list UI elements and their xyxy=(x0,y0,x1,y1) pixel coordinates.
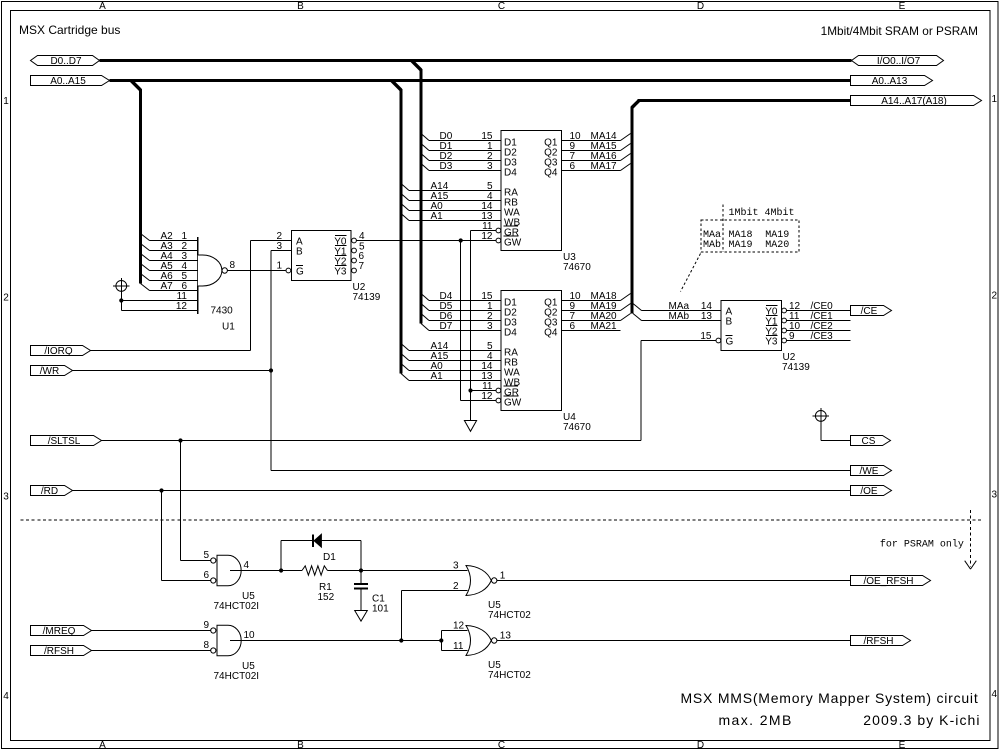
bus label I/O0..I/O7 xyxy=(852,56,944,68)
svg-text:5: 5 xyxy=(204,550,210,561)
wire: U3 Q2 to MA15 xyxy=(562,141,631,152)
svg-text:/WE: /WE xyxy=(860,466,879,477)
svg-text:MA21: MA21 xyxy=(591,321,618,332)
U4 pins 11,12 labels xyxy=(481,381,493,402)
svg-text:A0..A13: A0..A13 xyxy=(872,76,908,87)
svg-text:10: 10 xyxy=(244,630,256,641)
junction RC input xyxy=(279,568,283,572)
svg-text:/IORQ: /IORQ xyxy=(44,346,73,357)
wire: D7 to U4 D4 xyxy=(421,321,501,332)
svg-text:I/O0..I/O7: I/O0..I/O7 xyxy=(877,56,921,67)
svg-text:1: 1 xyxy=(992,94,998,105)
wire: U3 Q3 to MA16 xyxy=(562,151,631,162)
svg-text:74139: 74139 xyxy=(782,362,810,373)
U1 7430 8-input NAND gate xyxy=(198,237,228,314)
U2 left pin numbers xyxy=(276,231,365,272)
wire: A5 to U1 pin 4 xyxy=(141,261,198,272)
U2 74139 decoder (left) xyxy=(286,231,356,281)
wire: /MREQ to U5 pin 9 xyxy=(92,630,211,632)
svg-text:3: 3 xyxy=(487,321,493,332)
svg-text:74HCT02: 74HCT02 xyxy=(488,670,531,681)
wire: A0 to U4 xyxy=(401,361,501,372)
svg-text:13: 13 xyxy=(500,631,512,642)
bus label A0..A15 xyxy=(31,76,110,88)
svg-text:1: 1 xyxy=(276,261,282,272)
ground symbol (C1) xyxy=(355,611,368,622)
svg-text:A14..A17(A18): A14..A17(A18) xyxy=(881,96,947,107)
wire: U1 output to U2 G xyxy=(227,270,285,272)
wire: D6 to U4 D3 xyxy=(421,311,501,322)
U5d labels xyxy=(488,660,531,681)
svg-text:74HCT02I: 74HCT02I xyxy=(214,671,260,682)
svg-text:2: 2 xyxy=(3,293,9,304)
bus tap vertical x=140 (A2..A7 to U1) xyxy=(131,81,141,284)
svg-text:74670: 74670 xyxy=(563,422,591,433)
title: 1Mbit/4Mbit SRAM or PSRAM xyxy=(821,24,978,38)
dashed separator (PSRAM section) xyxy=(21,519,982,521)
svg-text:MSX Cartridge bus: MSX Cartridge bus xyxy=(19,23,120,37)
wire: /OE_RFSH output xyxy=(497,580,850,582)
wire: U5 pin 2 from refresh net xyxy=(401,591,467,641)
svg-text:A1: A1 xyxy=(431,211,444,222)
wire: /RD to /OE xyxy=(73,490,851,492)
wire: D3 to U3 D4 xyxy=(421,161,501,172)
wire: A15 to U3 xyxy=(401,191,501,202)
wire: A4 to U1 pin 3 xyxy=(141,251,198,262)
svg-text:MAb: MAb xyxy=(703,239,721,251)
junction /RD net xyxy=(159,488,163,492)
wire: A1 to U4 xyxy=(401,371,501,382)
svg-text:GW: GW xyxy=(504,238,522,249)
svg-text:9: 9 xyxy=(204,620,210,631)
wire: /CE2 xyxy=(787,321,851,332)
wire: U1 pin 12 xyxy=(121,301,198,312)
wire: Y0 (write strobe) to U3/U4 GW xyxy=(356,241,496,401)
wire: /RFSH to U5 pin 8 xyxy=(92,650,211,652)
wire: A15 to U4 xyxy=(401,351,501,362)
U1 pin 8 output label xyxy=(230,260,236,271)
U2 left labels xyxy=(353,282,381,303)
wire: /SLTSL branch to U5 pin 5 xyxy=(181,441,211,561)
resistor R1 xyxy=(302,566,335,603)
svg-text:MAb: MAb xyxy=(669,311,690,322)
wire: U4 Q3 to MA20 xyxy=(562,311,631,322)
svg-text:3: 3 xyxy=(487,161,493,172)
svg-text:GW: GW xyxy=(504,398,522,409)
svg-text:1Mbit 4Mbit: 1Mbit 4Mbit xyxy=(729,207,795,219)
wire: U3/U4 GR to ground xyxy=(471,231,496,421)
svg-text:MA17: MA17 xyxy=(591,161,618,172)
svg-text:74HCT02: 74HCT02 xyxy=(488,610,531,621)
wire: A6 to U1 pin 5 xyxy=(141,271,198,282)
U2 right pin numbers xyxy=(700,301,800,342)
svg-text:74670: 74670 xyxy=(563,262,591,273)
svg-text:/OE_RFSH: /OE_RFSH xyxy=(863,576,913,587)
junction GR net xyxy=(468,388,472,392)
svg-text:D7: D7 xyxy=(440,321,453,332)
svg-text:3: 3 xyxy=(3,492,9,503)
wire: D5 to U4 D2 xyxy=(421,301,501,312)
wire: U5 pin4 output to RC xyxy=(230,570,302,572)
svg-text:E: E xyxy=(899,1,906,12)
svg-text:D4: D4 xyxy=(504,328,517,339)
port /MREQ xyxy=(31,626,92,638)
U1 label xyxy=(222,322,235,333)
svg-text:B: B xyxy=(297,1,304,12)
1Mbit/4Mbit mapping table xyxy=(681,205,800,292)
wire: /SLTSL to U2 right G xyxy=(102,341,717,441)
svg-text:Y3: Y3 xyxy=(765,337,778,348)
svg-text:/OE: /OE xyxy=(860,486,878,497)
svg-text:1: 1 xyxy=(500,571,506,582)
junction /WR net xyxy=(269,368,273,372)
svg-text:4: 4 xyxy=(992,689,998,700)
bus vertical x=631 (MA14..MA20) xyxy=(632,100,639,313)
wire: D2 to U3 D3 xyxy=(421,151,501,162)
svg-text:U1: U1 xyxy=(222,322,235,333)
svg-text:A1: A1 xyxy=(431,371,444,382)
offpage connector symbol (U1 pins 11,12) xyxy=(113,278,130,311)
offpage connector symbol (CS) xyxy=(813,408,830,441)
text: for PSRAM only xyxy=(880,539,964,551)
svg-text:A7: A7 xyxy=(161,281,174,292)
svg-text:1: 1 xyxy=(3,96,9,107)
wire: MAb from bus to U2 pin B xyxy=(633,311,721,322)
U5 NOR gate (pins 12,11,13) xyxy=(453,621,511,656)
U5 NOR gate (pins 5,6,4) xyxy=(204,550,250,586)
bus tap vertical x=400 (A-bus to U3/U4) xyxy=(392,81,402,374)
junction gate4 input tie xyxy=(439,638,443,642)
U5c labels xyxy=(488,600,531,621)
svg-text:Q4: Q4 xyxy=(544,328,558,339)
svg-text:G: G xyxy=(296,267,304,278)
U2 right labels xyxy=(782,352,810,373)
title: max 2MB xyxy=(719,712,793,728)
svg-text:6: 6 xyxy=(570,321,576,332)
port /SLTSL xyxy=(31,436,102,448)
wire: U4 Q1 to MA18 xyxy=(562,291,631,302)
wire: /RD branch to U5 pin 6 xyxy=(162,491,211,581)
wire: /WE line xyxy=(271,470,851,472)
wire: /CE3 xyxy=(787,331,851,342)
U5 NOR gate (pins 3,2,1) xyxy=(453,561,506,596)
wire: D0 to U3 D1 xyxy=(421,131,501,142)
U4 labels xyxy=(563,412,591,433)
wire: /IORQ to U2 pin A xyxy=(91,241,292,351)
port /IORQ xyxy=(31,346,91,358)
svg-text:3: 3 xyxy=(992,490,998,501)
svg-text:2009.3 by K-ichi: 2009.3 by K-ichi xyxy=(863,712,980,728)
bus label A0..A13 xyxy=(851,76,933,88)
svg-text:6: 6 xyxy=(204,570,210,581)
svg-text:74139: 74139 xyxy=(353,292,381,303)
svg-text:for PSRAM only: for PSRAM only xyxy=(880,539,964,551)
svg-text:MA19: MA19 xyxy=(729,240,753,251)
svg-text:/CE: /CE xyxy=(861,306,878,317)
svg-text:D0..D7: D0..D7 xyxy=(50,56,82,67)
svg-text:G: G xyxy=(726,337,734,348)
port /WE xyxy=(851,466,892,478)
title: circuit name xyxy=(680,690,978,706)
svg-text:4: 4 xyxy=(3,691,9,702)
svg-text:1Mbit/4Mbit SRAM or PSRAM: 1Mbit/4Mbit SRAM or PSRAM xyxy=(821,24,978,38)
svg-text:D3: D3 xyxy=(440,161,453,172)
port /OE xyxy=(851,486,892,498)
wire: U4 Q2 to MA19 xyxy=(562,301,631,312)
svg-text:101: 101 xyxy=(372,604,389,615)
wire: U5 pin 10 output xyxy=(230,640,441,642)
port /WR xyxy=(31,366,73,378)
wire: gate4 input bracket xyxy=(441,631,467,651)
svg-text:E: E xyxy=(899,740,906,750)
wire: A14 to U4 xyxy=(401,341,501,352)
wire: U4 Q4 to MA21 xyxy=(562,321,621,332)
svg-text:74HCT02I: 74HCT02I xyxy=(214,601,260,612)
ground symbol (GR net) xyxy=(464,421,476,432)
wire: /CE0 xyxy=(787,301,851,312)
U1 label 7430 xyxy=(211,306,234,317)
svg-text:12: 12 xyxy=(453,621,465,632)
port CS xyxy=(851,436,891,448)
svg-text:7430: 7430 xyxy=(211,306,234,317)
junction pins 11/12 tie xyxy=(119,298,123,302)
U5a labels xyxy=(214,591,260,612)
svg-text:D4: D4 xyxy=(504,168,517,179)
svg-text:8: 8 xyxy=(204,640,210,651)
wire: D1 to U3 D2 xyxy=(421,141,501,152)
svg-text:D: D xyxy=(697,740,704,750)
svg-text:B: B xyxy=(296,247,303,258)
svg-text:7: 7 xyxy=(359,261,365,272)
svg-text:152: 152 xyxy=(318,592,335,603)
svg-text:/RFSH: /RFSH xyxy=(44,646,74,657)
svg-text:max. 2MB: max. 2MB xyxy=(719,712,793,728)
svg-text:A: A xyxy=(99,1,106,12)
U3 pins 11,12 labels xyxy=(481,221,493,242)
diode D1 xyxy=(313,534,336,563)
wire: /CE1 xyxy=(787,311,851,322)
svg-text:D1: D1 xyxy=(323,552,336,563)
wire: A7 to U1 pin 6 xyxy=(141,281,198,292)
svg-text:12: 12 xyxy=(176,301,188,312)
svg-text:6: 6 xyxy=(570,161,576,172)
svg-text:/RD: /RD xyxy=(41,486,58,497)
diode D1 bypass branch xyxy=(281,541,361,571)
svg-text:11: 11 xyxy=(453,641,464,652)
wire: A1 to U3 xyxy=(401,211,501,222)
wire: /WR to U2 pin B and /WE xyxy=(73,251,292,471)
port /RD xyxy=(31,486,73,498)
svg-text:/WR: /WR xyxy=(40,366,59,377)
svg-text:2: 2 xyxy=(992,291,998,302)
U4 74670 register file xyxy=(496,291,562,411)
wire: A0 to U3 xyxy=(401,201,501,212)
bus tap vertical x=420 (D-bus to U3/U4) xyxy=(412,61,422,324)
port /OE_RFSH xyxy=(851,576,931,588)
U5b labels xyxy=(214,661,260,682)
bus label D0..D7 xyxy=(31,56,100,68)
wire: D0..D7 bus xyxy=(100,59,852,62)
wire: U3 Q4 to MA17 xyxy=(562,161,631,172)
svg-text:C: C xyxy=(498,1,505,12)
junction /SLTSL net xyxy=(178,438,182,442)
wire: CS stem xyxy=(821,440,851,442)
bus label A14..A17(A18) xyxy=(851,96,982,108)
wire: A14 to U3 xyxy=(401,181,501,192)
svg-text:/RFSH: /RFSH xyxy=(864,636,894,647)
wire: A0..A15 bus xyxy=(110,79,851,82)
U2 74139 decoder (right) xyxy=(716,301,786,351)
svg-text:4: 4 xyxy=(244,560,250,571)
U5 NOR gate (pins 9,8,10) xyxy=(204,620,256,656)
wire: A2 to U1 pin 1 xyxy=(141,231,198,242)
svg-text:MSX MMS(Memory Mapper System): MSX MMS(Memory Mapper System) circuit xyxy=(680,690,978,706)
svg-text:MA20: MA20 xyxy=(765,240,789,251)
port /RFSH (input) xyxy=(31,646,92,658)
wire: A14..A17 bus horizontal xyxy=(638,99,851,102)
svg-text:D: D xyxy=(697,1,704,12)
svg-text:/CE3: /CE3 xyxy=(811,331,834,342)
svg-text:B: B xyxy=(726,317,733,328)
svg-text:CS: CS xyxy=(862,436,876,447)
dashed arrow for PSRAM only xyxy=(965,510,977,569)
svg-text:A0..A15: A0..A15 xyxy=(50,76,86,87)
svg-text:B: B xyxy=(297,740,304,750)
svg-text:13: 13 xyxy=(701,311,713,322)
title: MSX Cartridge bus xyxy=(19,23,120,37)
capacitor C1 xyxy=(354,571,389,615)
port /CE xyxy=(851,306,892,318)
svg-text:3: 3 xyxy=(453,561,459,572)
wire: /RFSH output xyxy=(497,640,850,642)
title: author xyxy=(863,712,980,728)
svg-text:Y3: Y3 xyxy=(334,267,347,278)
svg-text:/MREQ: /MREQ xyxy=(43,626,76,637)
wire: MAa from bus to U2 pin A xyxy=(633,301,721,312)
junction GW net xyxy=(459,238,463,242)
wire: U3 Q1 to MA14 xyxy=(562,131,631,142)
junction refresh net xyxy=(399,638,403,642)
svg-text:C: C xyxy=(498,740,505,750)
wire: D4 to U4 D1 xyxy=(421,291,501,302)
svg-text:A: A xyxy=(99,740,106,750)
svg-text:Q4: Q4 xyxy=(544,168,558,179)
svg-text:/SLTSL: /SLTSL xyxy=(48,436,81,447)
wire: RC node to U5 pin 3 xyxy=(328,570,468,572)
U3 labels xyxy=(563,252,591,273)
port /RFSH (output) xyxy=(851,636,911,648)
wire: A3 to U1 pin 2 xyxy=(141,241,198,252)
svg-text:8: 8 xyxy=(230,260,236,271)
U3 74670 register file xyxy=(496,131,562,251)
wire: U1 pin 11 xyxy=(121,291,198,302)
junction C1 top xyxy=(359,568,363,572)
